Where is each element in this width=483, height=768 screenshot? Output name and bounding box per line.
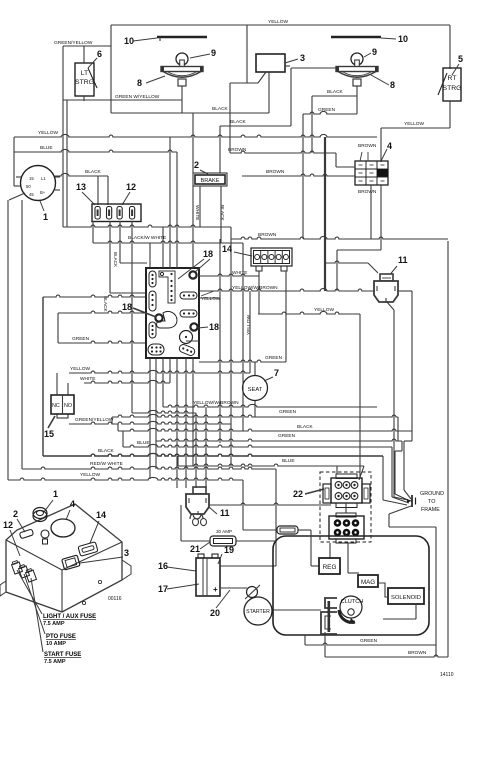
pin hole	[269, 255, 274, 260]
magneto MAG	[358, 575, 378, 587]
wire no lead	[67, 383, 69, 395]
wire yellow mid	[258, 311, 360, 314]
kill terminal upper	[325, 598, 337, 608]
wire diag into 11	[368, 263, 378, 273]
svg-text:3: 3	[300, 53, 305, 63]
wire fuse out D	[131, 221, 133, 413]
wire left v mid	[21, 200, 23, 469]
wire pin dn	[162, 358, 164, 407]
svg-text:YELLOW: YELLOW	[268, 19, 288, 25]
conn4 cell	[355, 169, 366, 177]
svg-text:BLACK: BLACK	[297, 424, 314, 430]
svg-text:YELLOW: YELLOW	[70, 366, 90, 372]
wire v	[57, 313, 59, 343]
wire drop	[403, 441, 405, 490]
wire pin	[55, 189, 60, 191]
svg-text:YELLOW: YELLOW	[404, 121, 424, 127]
connector 22 lower	[329, 516, 364, 539]
wire pointer 9 right	[364, 53, 371, 57]
lamp stem	[353, 79, 361, 86]
ground to frame symbol	[407, 495, 416, 507]
wire green/yellow bus	[62, 46, 64, 227]
wire pointer 13	[82, 192, 95, 205]
svg-text:RED/W WHITE: RED/W WHITE	[90, 461, 123, 467]
svg-text:REG: REG	[323, 564, 337, 571]
wire link 22s	[345, 503, 347, 513]
console body	[6, 504, 122, 612]
lamp bowl inner	[342, 72, 372, 76]
svg-text:30 AMP: 30 AMP	[216, 529, 232, 534]
wire left v outer	[7, 200, 9, 480]
pill E	[180, 310, 197, 317]
conn4 cell	[355, 161, 366, 169]
wire tab lead	[258, 271, 260, 314]
svg-text:START FUSE: START FUSE	[44, 652, 81, 658]
wire sol link	[383, 618, 416, 620]
tab	[256, 266, 262, 271]
wire drop green	[397, 417, 399, 441]
svg-text:9: 9	[372, 47, 377, 57]
wire yellow l	[69, 370, 250, 373]
lamp bar 8	[161, 67, 203, 72]
wire pointer 18b	[133, 308, 156, 317]
wire pointer	[80, 557, 123, 563]
switch RT STRG (5)	[443, 68, 461, 101]
wire green/yellow top	[63, 45, 111, 47]
wire solenoid down	[415, 604, 417, 619]
wire pill link	[201, 291, 214, 296]
wire black 431	[118, 428, 412, 431]
wire pointer 8 right	[371, 75, 389, 85]
hour meter 3	[256, 54, 285, 72]
bulb neck	[355, 60, 360, 67]
wire pin	[16, 176, 21, 178]
wing L	[323, 484, 331, 503]
svg-text:GREEN/YELLOW: GREEN/YELLOW	[54, 40, 93, 46]
svg-text:12: 12	[126, 182, 136, 192]
wire RT STRG bottom	[449, 101, 451, 128]
wire into module	[43, 295, 147, 297]
svg-text:15: 15	[44, 429, 54, 439]
svg-text:1: 1	[43, 212, 48, 222]
wire pointer 18a	[178, 259, 204, 279]
socket dark	[343, 519, 351, 527]
socket dark	[334, 529, 342, 537]
wire drop	[382, 456, 384, 500]
wire batt- wire	[220, 587, 247, 589]
wire pin dn	[169, 358, 171, 383]
socket	[351, 482, 358, 489]
wire pointer 6	[88, 58, 97, 68]
console foot R	[122, 560, 131, 580]
bar cap R	[375, 67, 378, 72]
wire pointer 1	[40, 201, 44, 211]
pin	[359, 164, 363, 166]
svg-text:6: 6	[97, 49, 102, 59]
lamp stem	[178, 79, 186, 86]
wire pin dn	[185, 358, 187, 488]
wire link	[336, 250, 338, 291]
svg-text:YELLOW: YELLOW	[38, 130, 58, 136]
svg-text:YELLOW: YELLOW	[314, 307, 334, 313]
svg-text:RT: RT	[448, 75, 457, 82]
wire pad tail	[186, 340, 199, 342]
pill A	[149, 271, 156, 287]
wire jog	[404, 440, 412, 442]
connector 22 upper	[331, 478, 362, 503]
interlock module	[146, 268, 199, 358]
svg-text:BLACK: BLACK	[113, 252, 118, 268]
regulator REG	[319, 558, 340, 574]
wire green 441	[156, 439, 402, 441]
pill B	[149, 291, 156, 311]
svg-text:BLACK: BLACK	[327, 89, 344, 95]
relay 18 c	[190, 323, 197, 330]
wire pointer 18c	[198, 327, 208, 328]
svg-text:YELLOW/W/BROWN: YELLOW/W/BROWN	[232, 285, 278, 291]
wire pin dn	[176, 358, 178, 488]
starter terminal	[247, 587, 258, 598]
svg-text:15: 15	[29, 176, 34, 181]
svg-text:BLACK: BLACK	[219, 205, 225, 222]
svg-text:7.5 AMP: 7.5 AMP	[43, 621, 65, 627]
wire pointer 4	[381, 149, 387, 161]
kill terminal inner	[325, 616, 331, 629]
socket	[351, 493, 358, 500]
wire pointer 9 left	[190, 54, 210, 58]
wire fuse out A	[92, 221, 94, 243]
wire to REG	[311, 565, 319, 567]
svg-text:7.5 AMP: 7.5 AMP	[44, 659, 66, 665]
svg-text:LIGHT / AUX FUSE: LIGHT / AUX FUSE	[43, 614, 96, 620]
connector 4	[355, 161, 388, 185]
wire tab lead	[285, 271, 287, 362]
wire jog	[395, 450, 402, 452]
svg-text:STARTER: STARTER	[246, 609, 270, 615]
wire green/yellow	[69, 421, 231, 424]
wire into module	[110, 292, 147, 294]
wire black 456	[43, 453, 383, 456]
wire fuse out	[236, 540, 276, 542]
svg-text:3: 3	[124, 548, 129, 558]
wire pin up	[162, 227, 164, 268]
wire drop to brake	[219, 126, 221, 173]
wire link	[325, 261, 368, 263]
pin	[370, 172, 374, 174]
wire lead	[205, 407, 207, 488]
svg-text:50: 50	[26, 184, 31, 189]
bulb neck	[180, 60, 185, 67]
relay 18 b	[155, 314, 162, 321]
pill C	[149, 322, 156, 338]
conn4 cell	[377, 177, 388, 185]
svg-text:4: 4	[70, 499, 75, 509]
wire conn4 down	[380, 185, 382, 250]
svg-text:2: 2	[194, 160, 199, 170]
socket dark	[352, 519, 360, 527]
wire brake down	[220, 186, 222, 243]
wire pointer 5	[452, 64, 459, 75]
wire jog	[304, 635, 306, 645]
wire blue 466	[178, 464, 364, 466]
svg-text:NC: NC	[52, 403, 60, 409]
wing slot	[364, 488, 368, 499]
svg-text:8: 8	[390, 80, 395, 90]
wire LT STRG bottom lead	[83, 96, 85, 101]
wire conn4 down 2	[370, 185, 372, 239]
divider	[260, 251, 262, 264]
svg-text:2: 2	[13, 509, 18, 519]
wire left v	[13, 137, 15, 186]
wire drop	[311, 96, 313, 153]
wire black sw	[55, 173, 108, 176]
wire brown a	[230, 151, 336, 153]
wire brown stub	[360, 152, 362, 161]
bulb 9	[176, 53, 188, 65]
wire y/w/b low	[163, 404, 377, 407]
switch LT STRG (6)	[75, 63, 94, 96]
wire left loop v	[42, 297, 44, 456]
wire black lamp1	[111, 112, 269, 114]
wire pointer	[90, 521, 99, 543]
blob	[157, 311, 178, 328]
conn4 cell	[377, 169, 388, 177]
svg-text:13: 13	[76, 182, 86, 192]
dashed harness box	[320, 472, 371, 542]
wire v link	[275, 469, 277, 566]
brake switch 2	[195, 175, 225, 184]
wire red/white	[22, 466, 276, 469]
pin	[370, 164, 374, 166]
wire lead to fuse 21	[180, 505, 182, 541]
wire to lamp2 bar	[291, 67, 336, 69]
connector 11 lower	[186, 487, 209, 526]
wire box3 left drop	[229, 83, 231, 153]
wire pointer	[66, 510, 70, 520]
wire into module	[58, 311, 147, 313]
fuse holder	[25, 568, 37, 582]
wire to gnd	[395, 494, 410, 501]
wire LT STRG top lead	[83, 46, 85, 63]
wire batt+ wire	[220, 565, 276, 567]
svg-text:12: 12	[3, 520, 13, 530]
wire lamp2 drop	[356, 86, 358, 114]
wire yellow rt strg	[381, 127, 450, 129]
wire jog	[117, 424, 119, 431]
wire pin dn	[155, 358, 157, 469]
T strip	[159, 271, 175, 303]
svg-text:14: 14	[96, 510, 106, 520]
fuse 2	[107, 207, 112, 220]
wire jog	[122, 431, 124, 447]
pin	[359, 180, 363, 182]
wire drop	[435, 527, 437, 657]
svg-text:BLACK: BLACK	[85, 169, 102, 175]
svg-text:CLUTCH: CLUTCH	[341, 599, 364, 605]
svg-text:8: 8	[137, 78, 142, 88]
svg-text:45: 45	[29, 192, 34, 197]
fuse 21 (30A)	[210, 536, 236, 546]
svg-text:10 AMP: 10 AMP	[46, 641, 66, 647]
wire box3 down	[268, 72, 270, 113]
wire jog	[335, 153, 337, 167]
conn4 cell	[366, 169, 377, 177]
svg-text:MAG: MAG	[361, 579, 375, 586]
wire pointer 19	[218, 554, 222, 564]
svg-text:18: 18	[209, 322, 219, 332]
wire black lamp2	[312, 95, 357, 97]
wire yellow top	[111, 24, 450, 26]
wire v	[242, 243, 244, 431]
wire fuse feed	[97, 176, 99, 205]
wire pointer	[10, 530, 20, 556]
svg-text:+: +	[213, 585, 218, 594]
console foot L	[0, 581, 6, 596]
wire out 11	[209, 503, 331, 505]
wire pointer 12	[122, 192, 130, 205]
svg-text:BLUE: BLUE	[282, 458, 295, 464]
mag-solenoid link	[378, 583, 388, 597]
wire box3 right down	[290, 68, 292, 126]
wire brown stub	[367, 152, 369, 161]
wire pointer	[44, 500, 53, 512]
wire brown b	[242, 174, 355, 176]
conn4 cell	[377, 161, 388, 169]
switch NC/NO 15	[51, 395, 74, 414]
wire pointer 7	[264, 377, 273, 381]
wire into module	[120, 262, 147, 264]
svg-text:YELLOW: YELLOW	[80, 472, 100, 478]
conn4 cell	[355, 177, 366, 185]
svg-text:BRAKE: BRAKE	[201, 178, 220, 184]
clutch	[340, 596, 362, 618]
wire stair	[337, 249, 381, 251]
wire feed	[336, 466, 338, 474]
lamp bar 8	[336, 67, 378, 72]
wire green right	[303, 111, 357, 114]
wire jog	[111, 417, 113, 424]
svg-text:18: 18	[122, 302, 132, 312]
svg-text:BROWN: BROWN	[358, 189, 377, 195]
conn4 cell	[366, 177, 377, 185]
svg-text:GREEN: GREEN	[265, 355, 283, 361]
wire to RT STRG	[449, 25, 451, 69]
wire to gnd	[394, 497, 412, 501]
wire drop/bus	[110, 25, 112, 113]
tab top	[336, 474, 357, 479]
inline fuse inner	[280, 528, 295, 532]
wire blue 447	[123, 444, 392, 447]
svg-text:YELLOW: YELLOW	[246, 315, 252, 335]
wire brake down	[199, 186, 201, 227]
wire into box3	[230, 82, 258, 84]
wire pointer 11b	[209, 507, 217, 514]
wire white l	[84, 380, 170, 383]
fuse holder	[18, 564, 30, 578]
wire lead fuse2	[24, 574, 45, 634]
wire pointer 18a2	[195, 259, 210, 272]
wing R	[362, 484, 370, 503]
lamp bowl inner	[167, 72, 197, 76]
socket dark	[334, 519, 342, 527]
wire green bottom	[305, 643, 436, 645]
svg-text:BLACK: BLACK	[230, 119, 247, 125]
console lid edge	[6, 540, 122, 570]
wire drop	[388, 514, 390, 527]
socket	[343, 493, 350, 500]
wire pin up	[192, 113, 194, 268]
round pad	[180, 331, 193, 344]
wire seat top lead	[254, 362, 256, 375]
socket	[335, 493, 342, 500]
tab	[336, 539, 356, 543]
svg-text:L1: L1	[41, 176, 46, 181]
wire pointer 20	[216, 590, 230, 608]
wire link	[389, 526, 436, 528]
svg-text:BROWN: BROWN	[408, 650, 427, 656]
wire drop	[302, 114, 304, 239]
socket dark	[343, 529, 351, 537]
wire to gnd	[404, 490, 411, 499]
wire fuse out C	[119, 221, 121, 263]
wire yellow stub	[199, 297, 220, 299]
jumper	[57, 414, 68, 418]
bar cap R	[200, 67, 203, 72]
svg-text:FRAME: FRAME	[421, 507, 440, 513]
svg-text:16: 16	[158, 561, 168, 571]
pad dot	[185, 336, 187, 338]
wire lead	[243, 529, 277, 531]
clutch hub	[348, 609, 354, 615]
svg-text:11: 11	[398, 255, 408, 265]
wire drop	[391, 447, 393, 497]
svg-text:BLACK: BLACK	[212, 106, 229, 112]
pin hole	[262, 255, 267, 260]
svg-text:10: 10	[124, 36, 134, 46]
fuse block 12/13	[92, 204, 141, 222]
svg-text:1: 1	[53, 489, 58, 499]
wire lead	[242, 480, 244, 530]
wire b1	[63, 225, 231, 227]
wire pointer	[17, 519, 25, 532]
svg-text:BLACK/W WHITE: BLACK/W WHITE	[128, 235, 166, 241]
wire yellow bottom	[8, 477, 243, 480]
wire pin up	[169, 137, 171, 268]
wire pin up	[176, 152, 178, 268]
svg-text:GREEN W/YELLOW: GREEN W/YELLOW	[115, 94, 160, 100]
fuse 1	[95, 207, 100, 220]
svg-text:PTO FUSE: PTO FUSE	[46, 634, 76, 640]
svg-text:GREEN: GREEN	[72, 336, 90, 342]
wire starter to kill	[272, 609, 321, 611]
svg-text:STRG: STRG	[443, 85, 462, 92]
wire pointer 11	[388, 266, 397, 277]
wire white	[199, 274, 259, 276]
svg-text:BROWN: BROWN	[266, 169, 285, 175]
conn4 cell	[366, 161, 377, 169]
wire bar 10 left	[157, 36, 207, 39]
button	[41, 530, 49, 538]
svg-text:SEAT: SEAT	[248, 387, 263, 393]
bulb 9	[351, 53, 363, 65]
wire angle into box3	[258, 72, 266, 83]
wire pointer 17	[167, 584, 199, 589]
wire green w/yellow lamp	[63, 99, 182, 101]
tab	[281, 266, 287, 271]
wire lead	[298, 529, 311, 531]
fuse holder	[11, 560, 23, 574]
socket	[335, 482, 342, 489]
